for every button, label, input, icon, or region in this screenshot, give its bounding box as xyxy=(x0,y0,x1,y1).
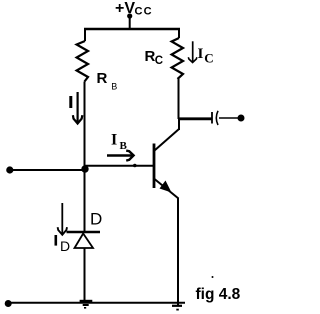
label I xyxy=(69,96,72,108)
svg-text:+V: +V xyxy=(115,0,135,17)
input terminal dot xyxy=(6,166,13,173)
stray dot xyxy=(212,276,214,278)
wire bottom rail xyxy=(11,302,185,304)
svg-text:I: I xyxy=(111,132,117,149)
node base junction dot xyxy=(81,165,88,172)
output terminal dot xyxy=(238,115,245,122)
node small dot on base wire xyxy=(133,164,137,168)
svg-text:R: R xyxy=(97,70,108,87)
wire input xyxy=(12,169,85,171)
ground at diode branch xyxy=(80,301,93,308)
label IC xyxy=(198,46,214,65)
wire base xyxy=(85,165,154,167)
wire diode top xyxy=(84,170,86,232)
capacitor C1 xyxy=(212,111,218,125)
wire RC bottom xyxy=(178,79,180,119)
current arrow I xyxy=(73,92,82,124)
svg-text:C: C xyxy=(155,55,163,67)
current arrow IC xyxy=(188,41,197,62)
wire capacitor out xyxy=(219,117,238,119)
wire diode bottom xyxy=(84,248,86,303)
current arrow IB xyxy=(107,151,134,161)
svg-text:D: D xyxy=(60,238,70,254)
svg-text:fig 4.8: fig 4.8 xyxy=(196,286,241,303)
label +Vcc xyxy=(115,0,153,18)
ground at emitter xyxy=(172,306,182,310)
wire RC top xyxy=(178,28,180,38)
wire emitter vertical xyxy=(177,198,179,305)
wire RB bottom xyxy=(84,82,86,171)
wire collector stub xyxy=(178,118,180,130)
svg-text:B: B xyxy=(111,82,117,92)
svg-text:CC: CC xyxy=(135,6,153,18)
resistor RC xyxy=(172,38,183,79)
label RC xyxy=(145,48,164,67)
node Vcc dot xyxy=(127,13,132,18)
wire top rail xyxy=(84,28,180,31)
diode D xyxy=(67,232,101,248)
current arrow ID xyxy=(58,203,67,235)
svg-text:I: I xyxy=(198,46,204,62)
wire capacitor feed xyxy=(178,117,212,120)
transistor Q1 xyxy=(154,129,179,199)
bottom terminal dot xyxy=(5,300,12,307)
resistor RB xyxy=(77,41,88,82)
svg-text:D: D xyxy=(90,210,102,229)
svg-text:C: C xyxy=(204,51,213,66)
label ID xyxy=(55,235,71,254)
label IB xyxy=(111,132,128,153)
wire Vcc stub xyxy=(129,16,131,29)
label RB xyxy=(97,70,118,92)
wire RB top xyxy=(84,28,86,41)
